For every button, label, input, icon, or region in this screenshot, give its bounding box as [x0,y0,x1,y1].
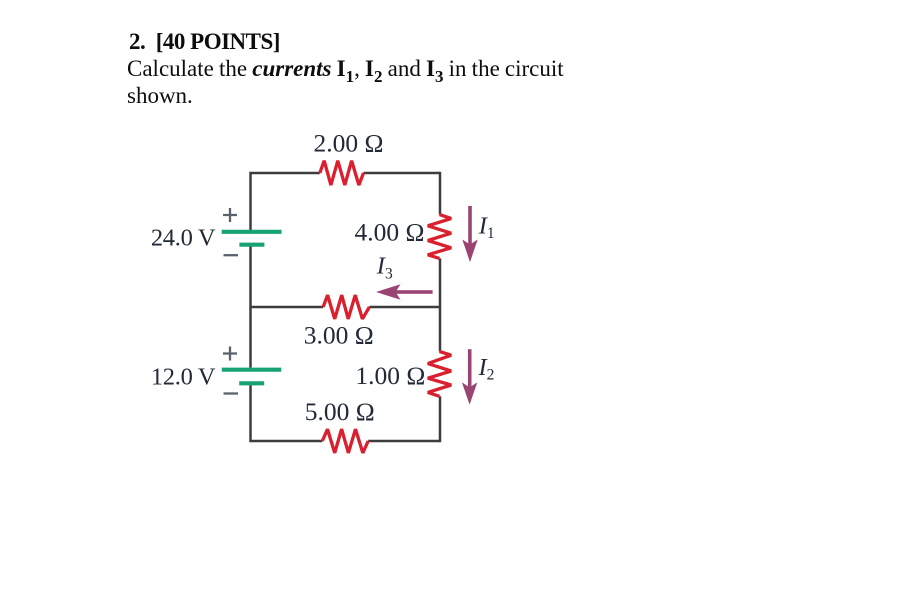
wire right upper (top rail to resistor R2) [439,172,442,215]
current arrow I2 (down) [462,349,477,404]
svg-text:5.00 Ω: 5.00 Ω [305,397,375,426]
battery V1 24.0V short plate [239,243,264,247]
resistor R5 5.00 ohm (bottom) [322,429,368,453]
wire bottom-right segment [368,440,440,443]
current arrow I3 (left) [376,284,433,300]
resistor R2 4.00 ohm (right upper, vertical) [428,215,451,259]
wire middle-right segment [369,306,440,309]
svg-text:1.00 Ω: 1.00 Ω [355,361,425,390]
battery V1 24.0V long plate [222,230,282,234]
svg-text:24.0 V: 24.0 V [151,225,216,252]
wire bottom-left segment [251,440,323,443]
resistor R4 1.00 ohm (right lower, vertical) [428,352,451,397]
wire right middle (resistor R2 to resistor R4) [439,258,442,351]
wire left upper (top rail to battery V1) [249,172,252,230]
svg-text:2.00 Ω: 2.00 Ω [314,128,384,157]
svg-text:I2: I2 [478,354,495,384]
wire top-right segment [364,172,441,175]
resistor R1 2.00 ohm (top) [320,161,364,185]
svg-text:4.00 Ω: 4.00 Ω [355,218,425,247]
battery V2 12.0V short plate [239,381,264,385]
wire left middle (battery V1 to battery V2) [249,247,252,368]
svg-text:3.00 Ω: 3.00 Ω [304,321,374,350]
wire middle-left segment [251,306,324,309]
svg-text:I1: I1 [478,213,495,243]
wire right lower (resistor R4 to bottom rail) [439,396,442,442]
svg-text:I3: I3 [376,253,393,283]
svg-text:12.0 V: 12.0 V [151,364,216,391]
wire left lower (battery V2 to bottom rail) [249,385,252,442]
current arrow I1 (down) [462,206,477,262]
battery V1 plus sign [223,208,237,222]
problem statement text [127,28,564,109]
battery V2 12.0V long plate [222,368,281,372]
battery V2 minus sign [224,392,239,394]
wire top-left segment [251,172,320,175]
battery V2 plus sign [223,347,237,361]
resistor R3 3.00 ohm (middle) [323,295,369,319]
battery V1 minus sign [224,254,239,256]
